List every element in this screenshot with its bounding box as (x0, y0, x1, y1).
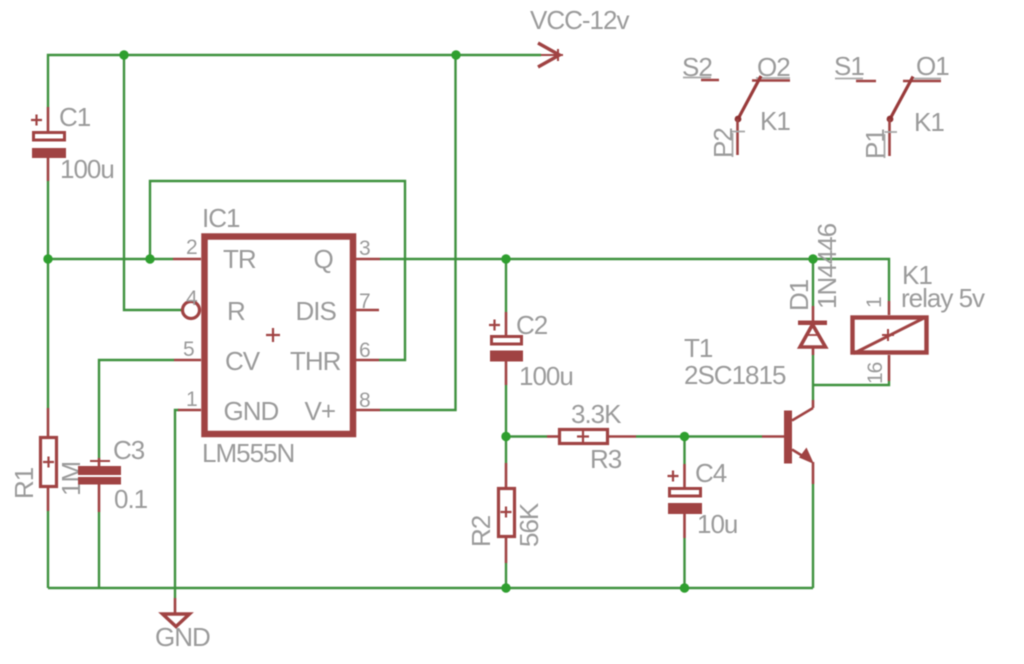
resistor R1 (41, 408, 57, 511)
capacitor C4 (668, 464, 703, 538)
svg-text:6: 6 (359, 339, 370, 362)
wire C2 bottom to R3 node (505, 385, 507, 437)
junction VCC rail / reset wire (119, 50, 128, 59)
junction R2 / ground rail (501, 583, 510, 592)
svg-text:5: 5 (183, 338, 194, 361)
junction C2 / R3 / R2 node (501, 432, 510, 441)
capacitor C3 (78, 458, 121, 512)
wire pin4 reset to VCC rail (124, 55, 182, 310)
svg-text:CV: CV (225, 346, 261, 376)
svg-text:10u: 10u (697, 509, 737, 539)
wire collector to relay pin16 (813, 381, 889, 385)
svg-text:DIS: DIS (296, 296, 337, 326)
svg-text:IC1: IC1 (202, 203, 240, 233)
svg-text:16: 16 (864, 362, 887, 384)
svg-text:C2: C2 (516, 310, 548, 340)
wire C4 top (683, 437, 685, 465)
ic center plus (266, 328, 280, 342)
svg-text:VCC-12v: VCC-12v (530, 5, 629, 35)
resistor R2 (499, 463, 515, 563)
pin 1 GND stub (178, 409, 201, 412)
pin 4 R bubble (183, 302, 200, 319)
capacitor C2 (489, 312, 523, 385)
svg-text:100u: 100u (60, 154, 114, 184)
svg-text:K1: K1 (914, 107, 944, 137)
switch contact S1/O1/P1 K1 (835, 77, 941, 159)
svg-text:D1: D1 (784, 279, 814, 311)
svg-text:LM555N: LM555N (202, 438, 294, 468)
junction Q rail / C2 (501, 254, 510, 263)
junction Q rail / D1 (808, 254, 817, 263)
svg-text:1N4446: 1N4446 (812, 223, 842, 309)
junction C4 / ground rail (680, 583, 689, 592)
pin 7 DIS stub (356, 309, 379, 312)
svg-text:GND: GND (224, 396, 279, 426)
svg-text:2: 2 (186, 236, 197, 259)
svg-text:1: 1 (186, 388, 197, 411)
wire node to R3 (506, 435, 547, 437)
svg-text:0.1: 0.1 (114, 484, 148, 514)
wire C4 bottom to rail (683, 538, 685, 588)
pin 5 CV stub (174, 359, 201, 362)
svg-text:S1: S1 (834, 51, 864, 81)
wire TR-THR loop (150, 181, 405, 360)
pin 3 Q stub (356, 258, 380, 261)
svg-text:56K: 56K (514, 502, 544, 547)
svg-text:V+: V+ (305, 396, 336, 426)
pin 2 TR stub (173, 258, 201, 261)
transistor T1 2SC1815 (762, 400, 814, 484)
wire D1 bottom to collector (812, 355, 814, 400)
svg-text:TR: TR (223, 244, 256, 274)
svg-text:K1: K1 (760, 106, 790, 136)
resistor R3 (547, 430, 636, 444)
svg-text:P1: P1 (860, 129, 890, 159)
svg-text:GND: GND (155, 622, 210, 652)
svg-text:R2: R2 (466, 515, 496, 547)
junction C1 / TR node (43, 254, 52, 263)
svg-text:3.3K: 3.3K (571, 399, 622, 429)
wire R2 bottom to rail (505, 563, 507, 588)
wire C2 top (505, 259, 507, 312)
switch contact S2/O2/P2 K1 (683, 76, 790, 157)
wire left rail down to R1 (47, 259, 49, 408)
wire R3 to base node (636, 435, 762, 437)
junction R3 / C4 / base node (680, 432, 689, 441)
pin 8 V+ stub (356, 409, 380, 412)
wire Q output long rail (380, 259, 889, 301)
relay K1 coil (853, 301, 927, 381)
svg-text:C4: C4 (695, 458, 727, 488)
junction VCC rail / V+ wire (451, 50, 460, 59)
svg-text:P2: P2 (708, 128, 738, 158)
wire R3 node down to R2 (505, 437, 507, 464)
ground symbol GND (163, 598, 190, 627)
svg-text:4: 4 (186, 287, 198, 310)
svg-text:8: 8 (359, 389, 370, 412)
svg-text:S2: S2 (682, 52, 712, 82)
svg-text:Q: Q (314, 244, 333, 274)
wire TR horizontal (48, 258, 173, 260)
svg-text:C3: C3 (113, 435, 145, 465)
svg-text:THR: THR (290, 346, 341, 376)
wire R1 bottom to rail (47, 511, 49, 588)
capacitor C1 (31, 107, 66, 181)
wire GND pin1 (175, 410, 179, 598)
svg-text:100u: 100u (519, 361, 573, 391)
svg-text:R3: R3 (590, 444, 622, 474)
wire C3 to bottom rail (98, 512, 100, 588)
diode D1 1N4446 (798, 306, 827, 355)
svg-text:O1: O1 (916, 51, 949, 81)
svg-text:7: 7 (359, 290, 370, 313)
vcc symbol VCC-12v (538, 43, 563, 67)
svg-text:relay 5v: relay 5v (901, 283, 985, 313)
wire emitter to bottom rail (812, 484, 814, 588)
svg-text:T1: T1 (684, 333, 713, 363)
svg-text:R: R (227, 296, 245, 326)
svg-text:1: 1 (863, 297, 886, 308)
wire C1 to TR node (47, 181, 49, 259)
wire D1 top (812, 259, 814, 306)
wire bottom ground rail (48, 587, 813, 589)
wire top VCC rail (48, 55, 541, 107)
wire CV to C3 (99, 360, 174, 458)
wire V+ to VCC rail (380, 55, 456, 410)
svg-text:3: 3 (359, 237, 370, 260)
junction TR / THR loop (145, 254, 154, 263)
pin 6 THR stub (356, 359, 379, 362)
svg-text:2SC1815: 2SC1815 (684, 360, 786, 390)
svg-text:R1: R1 (9, 467, 39, 499)
ic IC1 LM555N body (205, 237, 354, 435)
svg-text:C1: C1 (59, 102, 91, 132)
svg-text:O2: O2 (757, 52, 790, 82)
